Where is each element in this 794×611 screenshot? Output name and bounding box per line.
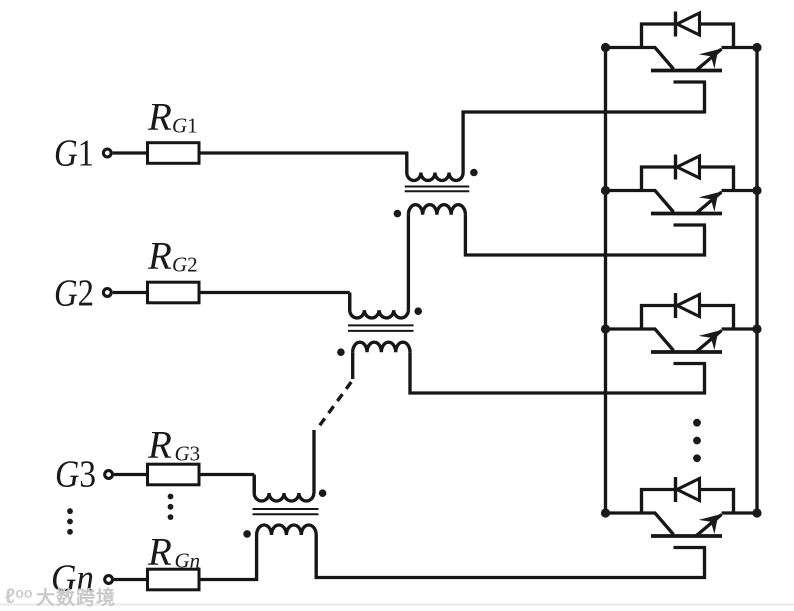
transformer T1 core bbox=[405, 186, 470, 188]
resistor RGn (Gn gate resistor) bbox=[148, 569, 200, 590]
wire bbox=[199, 535, 257, 580]
wire emitter bus (right rail) bbox=[755, 48, 758, 514]
transformer T3 primary winding bbox=[254, 475, 314, 502]
svg-text:Gn: Gn bbox=[175, 549, 201, 573]
wire bbox=[722, 46, 758, 49]
wire bbox=[199, 293, 350, 311]
svg-text:G1: G1 bbox=[54, 133, 94, 175]
resistor RG1 (G1 gate resistor) bbox=[148, 143, 200, 164]
diode D1 (anti-parallel) bbox=[642, 12, 734, 48]
node collector Q4 bbox=[601, 508, 610, 517]
IGBT Q3 bbox=[606, 329, 723, 364]
wire bbox=[722, 327, 758, 330]
wire bbox=[722, 511, 758, 514]
node emitter Q2 bbox=[752, 186, 761, 195]
svg-text:G2: G2 bbox=[54, 273, 94, 315]
transformer T1 primary winding bbox=[407, 153, 463, 181]
polarity dot T1 primary bbox=[470, 169, 478, 177]
resistor RG2 (G2 gate resistor) bbox=[148, 282, 200, 303]
polarity dot T3 primary bbox=[319, 489, 327, 497]
wire bbox=[114, 578, 148, 581]
node emitter Q1 bbox=[752, 43, 761, 52]
wire collector bus (left rail) bbox=[604, 48, 607, 514]
wire gate drive to Q3 bbox=[410, 352, 705, 393]
svg-text:R: R bbox=[147, 531, 172, 574]
ellipsis (more gate inputs) bbox=[67, 508, 73, 514]
node collector Q3 bbox=[601, 324, 610, 333]
wire bbox=[199, 151, 408, 154]
wire (dashed continuation to further stages) bbox=[318, 382, 351, 428]
node collector Q1 bbox=[601, 43, 610, 52]
svg-text:G3: G3 bbox=[55, 454, 96, 496]
svg-text:ℓᵒᵒ: ℓᵒᵒ bbox=[5, 585, 33, 608]
diode D2 (anti-parallel) bbox=[642, 155, 734, 191]
input terminal G3 bbox=[105, 471, 113, 479]
polarity dot T1 secondary bbox=[394, 210, 402, 218]
wire bbox=[312, 430, 315, 493]
node emitter Q4 bbox=[752, 508, 761, 517]
wire bbox=[722, 189, 758, 192]
transformer T2 primary winding bbox=[350, 293, 409, 318]
resistor RG3 (G3 gate resistor) bbox=[148, 464, 200, 485]
diode D4 (anti-parallel) bbox=[642, 477, 734, 513]
wire bbox=[200, 475, 254, 494]
svg-text:R: R bbox=[147, 424, 172, 467]
wire T1 secondary to T2 primary bbox=[407, 215, 410, 311]
wire gate drive to Q2 bbox=[465, 215, 704, 255]
wire gate drive to Q4 bbox=[316, 535, 704, 578]
polarity dot T2 primary bbox=[414, 307, 422, 315]
input terminal Gn bbox=[105, 576, 113, 584]
svg-text:R: R bbox=[147, 235, 172, 278]
IGBT Q2 bbox=[606, 191, 723, 226]
node emitter Q3 bbox=[752, 324, 761, 333]
transformer T1 secondary winding bbox=[408, 205, 465, 215]
wire bbox=[351, 352, 354, 379]
wire bbox=[113, 291, 148, 294]
svg-text:大数跨境: 大数跨境 bbox=[36, 586, 116, 609]
wire gate drive to Q1 bbox=[463, 82, 704, 173]
input terminal G2 bbox=[103, 289, 111, 297]
ellipsis (more gate resistors) bbox=[168, 494, 174, 500]
transformer T2 core bbox=[348, 324, 414, 326]
transformer T2 secondary winding bbox=[353, 342, 410, 352]
wire bbox=[113, 151, 148, 154]
svg-text:G1: G1 bbox=[172, 114, 198, 138]
polarity dot T2 secondary bbox=[337, 348, 345, 356]
input terminal G1 bbox=[103, 149, 111, 157]
diode D3 (anti-parallel) bbox=[642, 293, 734, 329]
transformer T3 secondary winding bbox=[257, 525, 317, 535]
svg-text:G2: G2 bbox=[172, 253, 198, 277]
polarity dot T3 secondary bbox=[243, 530, 251, 538]
IGBT Q1 bbox=[606, 48, 723, 83]
wire bbox=[114, 473, 148, 476]
transformer T3 core bbox=[253, 508, 319, 510]
svg-text:G3: G3 bbox=[175, 442, 201, 466]
IGBT Q4 bbox=[606, 513, 723, 548]
svg-text:R: R bbox=[147, 96, 172, 139]
node collector Q2 bbox=[601, 186, 610, 195]
ellipsis (more series IGBT cells) bbox=[693, 419, 701, 427]
